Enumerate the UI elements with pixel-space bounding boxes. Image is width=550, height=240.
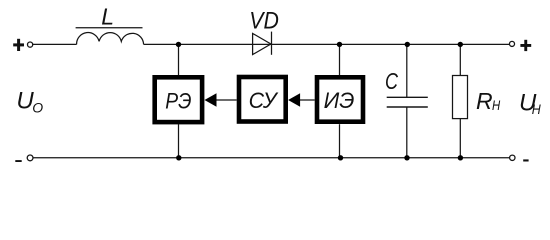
svg-text:C: C <box>385 68 399 94</box>
svg-text:СУ: СУ <box>249 88 279 113</box>
svg-text:H: H <box>532 101 542 117</box>
svg-text:O: O <box>32 100 43 116</box>
svg-text:РЭ: РЭ <box>165 88 191 113</box>
svg-text:R: R <box>476 88 493 114</box>
svg-text:H: H <box>492 97 501 113</box>
svg-text:ИЭ: ИЭ <box>324 88 355 113</box>
svg-text:VD: VD <box>249 8 279 35</box>
svg-text:L: L <box>101 4 114 30</box>
